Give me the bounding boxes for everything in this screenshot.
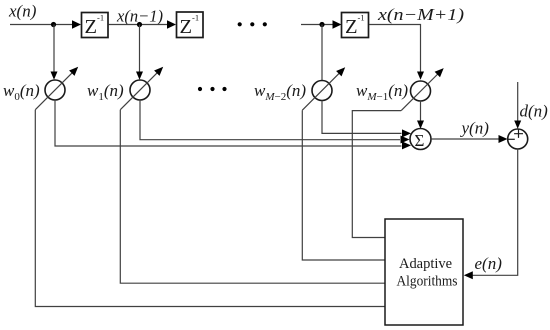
svg-text:e(n): e(n) (475, 254, 503, 273)
arrow into w1 (136, 72, 143, 80)
arrow into adder (499, 135, 508, 143)
svg-text:Adaptive: Adaptive (399, 256, 452, 272)
ellipsis middle row (198, 87, 227, 91)
wire e(n) (473, 149, 518, 275)
arrow w1 into sum (401, 136, 410, 144)
arrow into wM1 (417, 72, 424, 80)
svg-text:w1(n): w1(n) (87, 81, 124, 103)
arrow wM2 into sum (402, 129, 411, 137)
summation node (410, 129, 431, 151)
svg-text:Z-1: Z-1 (180, 13, 200, 39)
wire wM1 feedback (352, 111, 401, 238)
ellipsis top row (238, 22, 267, 26)
adder node (508, 129, 528, 149)
wire Z1 to Z2 (109, 24, 168, 26)
wire d(n) (517, 82, 519, 121)
wire down to wM2 (321, 25, 323, 81)
svg-text:wM−2(n): wM−2(n) (254, 81, 306, 103)
arrow wM1 into sum (417, 121, 424, 129)
wire w0 feedback (35, 110, 385, 307)
svg-text:x(n): x(n) (8, 2, 37, 21)
arrow into Z3 (333, 20, 342, 29)
svg-text:d(n): d(n) (520, 102, 549, 121)
multiplier w0 (35, 67, 78, 110)
node junction x(n-1) (137, 22, 142, 27)
arrow into Z1 (72, 20, 81, 29)
wire w0 output to sum (55, 100, 402, 146)
wire w1 feedback (120, 110, 385, 284)
wire w1 output to sum (140, 100, 400, 140)
arrow e(n) into box (464, 271, 473, 279)
delay block Z3 (342, 13, 369, 39)
delay block Z2 (177, 12, 204, 38)
wire wM2 feedback (302, 110, 385, 260)
wire input x(n) (10, 24, 73, 26)
svg-text:wM−1(n): wM−1(n) (356, 81, 408, 103)
svg-text:Algorithms: Algorithms (397, 274, 458, 290)
svg-text:y(n): y(n) (460, 119, 490, 138)
delay block Z1 (82, 13, 109, 39)
svg-text:Z-1: Z-1 (345, 13, 365, 39)
multiplier w1 (120, 67, 163, 110)
svg-text:w0(n): w0(n) (3, 81, 40, 103)
wire y(n) (431, 138, 499, 140)
wire into Z3 (301, 24, 333, 26)
arrow d(n) into adder (514, 121, 521, 129)
multiplier wM2 (302, 67, 345, 110)
svg-text:Z-1: Z-1 (85, 13, 105, 39)
wire down to w0 (53, 25, 55, 73)
wire Z3 to wM1 (369, 25, 421, 73)
arrow into Z2 (167, 20, 176, 29)
node junction before Z3 (319, 22, 324, 27)
wire wM2 output to sum (322, 101, 402, 134)
multiplier wM1 (401, 68, 444, 111)
node junction input (51, 22, 56, 27)
adaptive algorithms box (385, 219, 463, 325)
wire down to w1 (139, 25, 141, 73)
svg-text:Σ: Σ (415, 131, 425, 150)
wire wM1 output to sum (420, 101, 422, 121)
svg-text:x(n−M+1): x(n−M+1) (377, 5, 465, 24)
arrow w0 into sum (402, 141, 411, 149)
arrow into w0 (51, 72, 58, 80)
